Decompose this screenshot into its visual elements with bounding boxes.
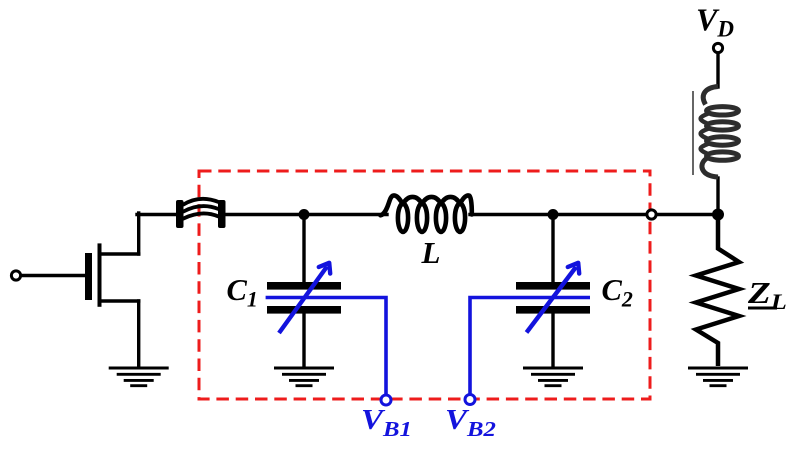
svg-text:C2: C2 (602, 273, 633, 312)
svg-text:VB2: VB2 (445, 404, 496, 440)
svg-text:VB1: VB1 (361, 404, 412, 440)
svg-text:VD: VD (696, 2, 734, 42)
svg-text:C1: C1 (227, 273, 258, 312)
svg-text:L: L (421, 235, 441, 270)
